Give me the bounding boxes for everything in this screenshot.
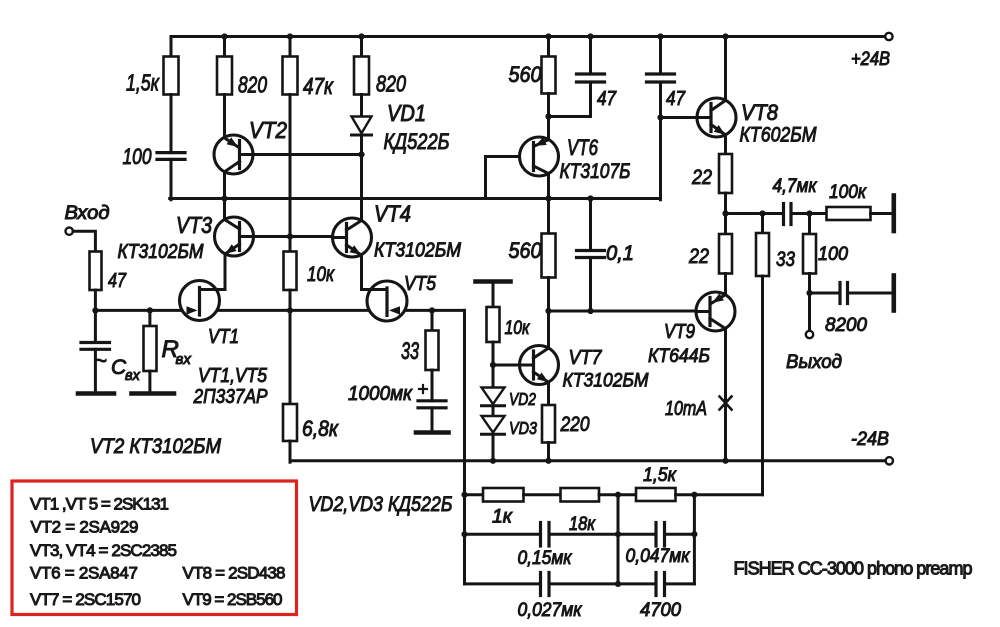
capacitor 0,1 — [577, 242, 635, 265]
wire chain start — [465, 493, 484, 496]
svg-text:2П337АР: 2П337АР — [193, 386, 268, 408]
svg-text:47: 47 — [108, 270, 127, 292]
resistor R 1к — [483, 488, 524, 528]
junction dot chain left — [461, 492, 467, 498]
transistor VT6 PNP — [520, 135, 631, 183]
svg-text:820: 820 — [238, 72, 267, 98]
junction dot 47a cap node — [545, 113, 551, 119]
wire cap 0,1 down — [589, 258, 592, 312]
wire 8200 to bar — [848, 292, 893, 295]
legend text VT7 — [30, 590, 141, 609]
wire rail to 820a — [223, 37, 226, 58]
capacitor 4,7мк — [773, 176, 818, 225]
resistor R 47 input — [90, 252, 127, 293]
svg-text:22: 22 — [691, 166, 712, 189]
resistor R 18к — [561, 488, 600, 535]
svg-text:10к: 10к — [307, 263, 335, 286]
wire 560a to VT6 emitter — [547, 94, 550, 140]
junction dot chain right — [691, 492, 697, 498]
junction dot 820b rail — [358, 33, 364, 39]
junction dot VT8 collector rail — [722, 33, 728, 39]
wire mid line center — [549, 533, 656, 536]
wire output line y213 — [726, 212, 784, 215]
transistor VT1 JFET — [180, 281, 240, 349]
wire bar to 10k — [492, 282, 495, 308]
resistor R 6,8к — [283, 404, 339, 441]
capacitor 0,027мк — [518, 573, 583, 622]
capacitor 8200 — [825, 283, 867, 337]
wire rail to 820b — [360, 37, 363, 58]
svg-text:вх: вх — [125, 368, 141, 384]
ground 1000мк — [416, 430, 449, 435]
wire main gate line y310 — [95, 309, 464, 312]
wire -24V bottom rail — [290, 459, 885, 462]
wire 33b down to RIAA — [761, 276, 764, 495]
resistor R 220 — [542, 405, 590, 443]
wire VD2 to VD3 — [492, 406, 495, 416]
wire node to VT3 collector — [223, 199, 226, 220]
wire 100 to out node — [808, 274, 811, 294]
junction dot chain mid — [615, 492, 621, 498]
wire VT7 base line — [493, 364, 520, 367]
wire 100k to bar — [871, 212, 893, 215]
junction dot 33b — [759, 210, 765, 216]
label VT1,VT5 — [198, 365, 268, 387]
junction dot 220 rail — [545, 458, 551, 464]
legend text VT2 — [31, 518, 139, 537]
svg-text:VT7: VT7 — [569, 346, 603, 369]
wire 820b to VD1 — [360, 95, 363, 117]
svg-text:КТ644Б: КТ644Б — [648, 345, 710, 367]
wire cap 100 down to node line — [170, 159, 173, 199]
wire 22b branch — [724, 214, 727, 235]
svg-text:560: 560 — [509, 238, 543, 263]
svg-text:22: 22 — [688, 245, 709, 268]
junction dot 560a rail — [545, 33, 551, 39]
svg-text:VT7 = 2SC1570: VT7 = 2SC1570 — [30, 590, 141, 609]
svg-text:33: 33 — [401, 338, 419, 365]
terminal +24V — [885, 33, 892, 40]
svg-text:VT9: VT9 — [664, 321, 695, 343]
wire 220 to rail — [547, 443, 550, 461]
svg-text:VT2 = 2SA929: VT2 = 2SA929 — [31, 518, 139, 537]
wire node line riser to VT6 base — [486, 157, 520, 199]
wire cap 47a to VT6 branch — [549, 82, 591, 117]
svg-text:VT9 = 2SB560: VT9 = 2SB560 — [183, 590, 283, 609]
wire 10k to source line — [289, 290, 292, 310]
diode VD3 — [482, 416, 538, 438]
junction dot 33a — [429, 307, 435, 313]
wire VT3 emitter down to VT1 drain — [201, 254, 226, 290]
junction dot x590 — [587, 195, 593, 201]
capacitor 100 — [123, 144, 186, 169]
wire 560b to VT7 node — [547, 278, 550, 349]
wire rail to cap 47a — [589, 37, 592, 75]
junction dot x224 — [221, 195, 227, 201]
wire 47 to source line — [94, 290, 97, 310]
legend text VT1 VT5 — [30, 495, 169, 514]
wire input node down to Cвх — [94, 310, 97, 342]
label 2П337АР — [193, 386, 268, 408]
svg-text:0,1: 0,1 — [606, 242, 634, 265]
wire +24V top rail — [171, 35, 885, 38]
wire 10k to VT7 base node — [492, 342, 495, 365]
junction dot bottom center — [615, 581, 621, 587]
transistor VT3 NPN — [118, 212, 254, 263]
junction dot 47a rail — [587, 33, 593, 39]
capacitor Свх — [81, 343, 110, 350]
svg-text:VT1,VT5: VT1,VT5 — [198, 365, 268, 387]
resistor R 33 b — [756, 233, 795, 276]
svg-text:1к: 1к — [492, 507, 513, 528]
svg-text:100к: 100к — [829, 182, 867, 203]
transistor VT8 NPN — [697, 98, 817, 147]
capacitor 0,15мк — [518, 523, 573, 570]
wire rail to 47k — [289, 37, 292, 58]
junction dot VD3 rail — [490, 458, 496, 464]
wire mid cap line — [465, 533, 541, 536]
junction dot VT7 base — [490, 362, 496, 368]
wire VT3-VT4 base line — [240, 235, 333, 238]
wire cap 47b down to node line corner — [659, 82, 662, 200]
resistor R 100 b — [803, 234, 848, 274]
svg-text:100: 100 — [818, 244, 848, 265]
junction dot Rвх — [147, 307, 153, 313]
legend text VT8 — [183, 564, 286, 583]
legend text VT6 — [30, 564, 138, 583]
capacitor 0,047мк — [626, 523, 691, 568]
wire 1.5k branch top — [170, 37, 173, 58]
svg-text:47: 47 — [597, 88, 617, 110]
wire VT2 collector down — [223, 172, 226, 199]
capacitor 4700 — [640, 573, 681, 622]
svg-text:VT6: VT6 — [567, 135, 599, 160]
junction dot mid center — [615, 531, 621, 537]
diode VD2 — [482, 388, 537, 410]
svg-text:10к: 10к — [505, 317, 531, 339]
wire 22b to VT9 emitter — [724, 274, 727, 295]
svg-text:6,8к: 6,8к — [302, 416, 339, 441]
transistor VT2 PNP — [214, 117, 287, 174]
transistor VT4 NPN — [333, 201, 462, 262]
svg-text:Вход: Вход — [65, 203, 110, 224]
svg-text:VT8: VT8 — [741, 100, 779, 125]
junction dot output node — [806, 290, 812, 296]
wire mid line right — [665, 533, 695, 536]
svg-text:КТ3102БМ: КТ3102БМ — [374, 240, 461, 262]
svg-text:4700: 4700 — [640, 600, 681, 621]
junction dot mid right — [691, 531, 697, 537]
connector bar right 2 — [891, 276, 896, 311]
wire node to cap 0,1 — [589, 199, 592, 251]
wire out node to 8200 — [810, 292, 841, 295]
svg-text:VD2: VD2 — [509, 389, 536, 409]
wire VD3 to rail — [492, 434, 495, 461]
wire to output terminal — [808, 293, 811, 331]
resistor Rвх — [144, 326, 192, 371]
wire cap to 100k — [791, 212, 827, 215]
wire Rвх to ground — [148, 371, 151, 392]
svg-text:1,5к: 1,5к — [126, 70, 160, 96]
terminal Выход — [806, 331, 813, 338]
svg-text:VT1: VT1 — [208, 326, 239, 348]
wire Свх to ground — [94, 349, 97, 391]
transistor VT7 NPN — [520, 346, 650, 392]
wire bottom line right — [665, 582, 695, 585]
wire 820a to VT2 — [223, 95, 226, 139]
svg-text:VT3: VT3 — [176, 212, 212, 238]
junction dot out node 22 — [722, 210, 728, 216]
svg-text:820: 820 — [376, 71, 406, 97]
svg-text:220: 220 — [560, 413, 590, 436]
junction dot 47b rail — [657, 33, 663, 39]
ground Rвх — [132, 391, 175, 396]
wire 1k-18k — [524, 493, 562, 496]
junction dot 0,1 bottom — [587, 308, 593, 314]
resistor R 22 a — [691, 154, 732, 193]
capacitor 1000мк polar — [348, 383, 446, 408]
wire node to VD2 — [492, 365, 495, 388]
label Выход — [786, 352, 842, 373]
wire 1000мк to ground — [431, 408, 434, 431]
shield bar 10k — [476, 279, 511, 284]
junction dot x548 — [545, 195, 551, 201]
wire riser mid — [617, 495, 620, 584]
resistor R 10к b — [487, 307, 531, 342]
resistor R 33 a — [401, 331, 439, 371]
label VT2 КТ3102БМ — [90, 435, 221, 458]
wire source line to 6.8k — [289, 310, 292, 404]
legend text VT9 — [183, 590, 283, 609]
resistor R 560 b — [509, 234, 556, 278]
junction dot VD1 VT2 base — [358, 151, 364, 157]
svg-text:10mA: 10mA — [665, 398, 707, 420]
label Вход — [65, 203, 110, 224]
junction dot 820a rail — [221, 33, 227, 39]
wire rail to 560a — [547, 37, 550, 58]
svg-text:8200: 8200 — [825, 315, 867, 336]
resistor R 47к — [283, 57, 334, 100]
svg-text:VD3: VD3 — [509, 418, 537, 438]
wire bottom line center — [549, 582, 656, 585]
resistor R 100к — [827, 182, 871, 220]
svg-text:47к: 47к — [303, 73, 334, 99]
current X mark 10mA — [665, 397, 732, 421]
wire mid node line y198 — [170, 197, 661, 200]
wire base node to 10k — [289, 237, 292, 253]
svg-text:0,15мк: 0,15мк — [518, 548, 573, 569]
junction dot VT7 collector node — [545, 308, 551, 314]
wire 100 branch — [808, 214, 811, 235]
svg-text:VT3, VT4 = 2SC2385: VT3, VT4 = 2SC2385 — [30, 541, 177, 560]
resistor R 1,5к b — [636, 465, 677, 501]
svg-text:VT5: VT5 — [404, 273, 437, 295]
wire 33a to 1000мк — [431, 370, 434, 401]
wire VD1 node down to VT4 collector — [360, 155, 363, 221]
svg-text:+24В: +24В — [851, 49, 890, 70]
ground Свх — [78, 391, 114, 396]
svg-text:КТ602БМ: КТ602БМ — [740, 124, 817, 147]
wire 33b branch — [761, 214, 764, 234]
resistor R 22 b — [688, 234, 732, 274]
svg-text:1,5к: 1,5к — [643, 465, 677, 486]
svg-text:4,7мк: 4,7мк — [773, 176, 818, 197]
junction dot VT8 base node — [657, 114, 663, 120]
wire 33a branch — [431, 310, 434, 331]
wire VT8 emitter to 22a — [724, 135, 727, 155]
wire VT7 emitter to 220 — [547, 382, 550, 405]
resistor R 560 a — [509, 57, 556, 94]
wire bottom cap line left — [465, 582, 541, 585]
label +24В — [851, 49, 890, 70]
svg-text:VT6 = 2SA847: VT6 = 2SA847 — [30, 564, 138, 583]
diode VD1 КД522Б — [352, 100, 450, 154]
wire 6.8k to -24V rail — [289, 441, 292, 462]
resistor R 10к a — [284, 252, 335, 291]
caption FISHER CC-3000 — [734, 559, 973, 579]
wire rail to cap 47b — [659, 37, 662, 75]
wire 18k to dot — [599, 493, 637, 496]
wire VT7 collector up — [547, 311, 550, 348]
capacitor 47 a — [577, 74, 617, 110]
junction dot mid left — [461, 531, 467, 537]
wire 22a to output line — [724, 193, 727, 214]
svg-text:-24В: -24В — [851, 429, 889, 450]
label ~Свх — [94, 348, 141, 384]
wire VD1 to node dot — [360, 135, 363, 155]
wire VT2 base to VD1 node — [240, 153, 362, 156]
terminal -24V — [886, 457, 893, 464]
connector bar top right — [891, 196, 896, 232]
junction dot 100 node — [806, 210, 812, 216]
wire VT9 collector down — [724, 328, 727, 460]
capacitor 47 b — [647, 74, 686, 110]
wire riser right — [693, 495, 696, 584]
svg-text:VT8 = 2SD438: VT8 = 2SD438 — [183, 564, 286, 583]
wire VT6 collector down — [547, 173, 550, 234]
svg-text:1000мк: 1000мк — [348, 383, 413, 405]
svg-text:КТ3102БМ: КТ3102БМ — [118, 241, 204, 263]
wire VT8 collector to rail — [724, 37, 727, 101]
wire Rвх branch — [148, 310, 151, 326]
svg-text:0,047мк: 0,047мк — [626, 546, 691, 567]
transistor VT9 PNP — [648, 292, 735, 367]
wire to VT8 base — [661, 116, 698, 119]
svg-text:КД522Б: КД522Б — [384, 129, 450, 154]
svg-text:VT1 ,VT 5 = 2SK131: VT1 ,VT 5 = 2SK131 — [30, 495, 169, 514]
junction dot input node — [92, 307, 98, 313]
svg-text:47: 47 — [666, 88, 686, 110]
svg-text:вх: вх — [176, 351, 192, 368]
terminal input — [66, 228, 73, 235]
label -24В — [851, 429, 889, 450]
wire VT4 emitter down to VT5 drain — [362, 255, 387, 290]
svg-text:FISHER CC-3000 phono preamp: FISHER CC-3000 phono preamp — [734, 559, 973, 579]
svg-text:КТ3107Б: КТ3107Б — [560, 160, 631, 183]
resistor R 1,5к — [126, 57, 179, 96]
svg-text:560: 560 — [509, 62, 543, 87]
legend text VT3 VT4 — [30, 541, 177, 560]
svg-text:Выход: Выход — [786, 352, 842, 373]
svg-text:18к: 18к — [569, 514, 596, 535]
junction dot 10k-6.8k — [287, 307, 293, 313]
svg-text:КТ3102БМ: КТ3102БМ — [563, 370, 650, 392]
svg-text:VT2: VT2 — [249, 117, 287, 143]
legend box red — [12, 481, 297, 615]
svg-text:100: 100 — [123, 144, 153, 169]
svg-text:VT4: VT4 — [374, 201, 411, 227]
resistor R 820 b — [354, 57, 406, 97]
junction dot VT9 rail — [722, 458, 728, 464]
junction dot 47k rail — [287, 33, 293, 39]
svg-text:33: 33 — [776, 248, 795, 271]
svg-text:VD1: VD1 — [387, 100, 426, 126]
wire right feedback drop — [463, 310, 466, 584]
wire 1.5k to cap 100 — [170, 95, 173, 153]
label VD2,VD3 КД522Б — [309, 493, 453, 516]
svg-text:VT2 КТ3102БМ: VT2 КТ3102БМ — [90, 435, 221, 458]
svg-text:0,027мк: 0,027мк — [518, 600, 583, 621]
wire 1.5k to corner — [676, 493, 763, 496]
wire VT7-VT9 line — [549, 310, 697, 313]
transistor VT5 JFET — [362, 273, 437, 321]
resistor R 820 a — [217, 57, 267, 98]
wire 47k down to base node — [289, 95, 292, 237]
svg-text:VD2,VD3 КД522Б: VD2,VD3 КД522Б — [309, 493, 453, 516]
junction dot base line x290 — [287, 233, 293, 239]
wire input to 47 — [73, 231, 95, 252]
